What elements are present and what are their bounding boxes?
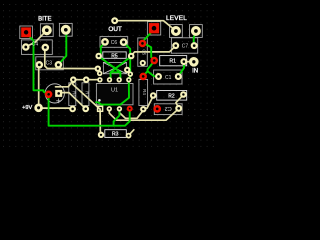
pad R4 bottom <box>142 108 144 110</box>
pad OUT red square (J2) <box>149 23 159 33</box>
diode D1 outline <box>103 63 126 74</box>
wire R1 right to IN pad <box>184 61 194 63</box>
svg-text:R3: R3 <box>112 132 119 138</box>
wire C5 top to R1 left via <box>143 44 154 61</box>
pad R6 bottom <box>71 108 74 111</box>
wire U1 pin5 internal route <box>96 80 129 105</box>
pad C6 right <box>122 41 125 44</box>
pad BITE pot pin 2 <box>64 28 68 32</box>
connector J2 OUT red pad outline box <box>147 22 160 35</box>
wire R3 right stub <box>129 130 134 135</box>
wire R1 left via zigzag to C1 left <box>148 61 159 77</box>
svg-text:BITE: BITE <box>38 16 51 22</box>
pad R3 right <box>128 135 130 137</box>
svg-text:C6: C6 <box>111 40 118 46</box>
svg-text:C2: C2 <box>165 105 172 111</box>
wire +9V pad to R6 bottom <box>39 107 73 110</box>
pad C3 right <box>57 63 60 66</box>
wire R4 bottom to R2 left <box>144 96 154 109</box>
capacitor C8 electrolytic circle outline <box>45 84 64 103</box>
pad LEVEL pot pin A <box>174 29 178 33</box>
wire R6 top to U1 pin1 (long diagonal) <box>73 80 100 108</box>
resistor R4 outline <box>139 80 148 106</box>
capacitor C8 plus mark <box>57 100 61 102</box>
pad U1 pin 1 square <box>98 106 103 111</box>
svg-text:C5: C5 <box>142 49 147 55</box>
svg-text:R7: R7 <box>85 91 90 97</box>
pad R7 bottom <box>84 108 87 111</box>
wire C8 plus upper to R6 top <box>56 80 74 86</box>
pad R4 top (red) <box>142 75 145 78</box>
wire C8 minus down to long bottom run <box>49 94 130 125</box>
resistor R6 outline <box>69 83 76 106</box>
pad R3 left <box>100 134 102 136</box>
wire U1 pin3 staircase to R4 bottom <box>119 109 143 119</box>
wire U1 pin1 to R3 left <box>99 109 102 135</box>
wire C8 plus lower to R7 bottom <box>62 93 86 109</box>
capacitor C2 outline <box>154 104 182 115</box>
pad R5 left <box>97 55 100 58</box>
pad U1 pin 8 <box>99 79 101 81</box>
svg-text:U1: U1 <box>111 88 118 94</box>
pad C6 left <box>104 40 107 43</box>
pot BITE pad 1 outline box <box>40 24 53 37</box>
pad C8 minus (red) <box>47 93 50 96</box>
svg-text:R6: R6 <box>71 91 76 97</box>
svg-text:R4: R4 <box>142 89 147 95</box>
capacitor C5 outline <box>138 38 148 66</box>
pad R6 top <box>72 78 75 81</box>
pad U1 pin 2 <box>108 108 110 110</box>
pad R7 top <box>85 78 88 81</box>
wire link under D1 <box>111 71 121 73</box>
wire R5 right to U1 pin7 (diag) <box>111 56 132 79</box>
wire OUT red pad to C5 top <box>143 32 152 44</box>
pad R1 right <box>183 60 186 63</box>
capacitor C3 outline <box>36 57 64 70</box>
pad C2 left (red) <box>156 108 159 111</box>
svg-text:R5: R5 <box>111 53 118 59</box>
pad R1 left (red) <box>153 59 156 62</box>
pad U1 pin 6 <box>118 79 120 81</box>
pad BITE pot pin 1 <box>45 28 49 32</box>
svg-text:R1: R1 <box>169 58 176 64</box>
pad C8 plus square <box>55 90 62 97</box>
pad C2 right <box>177 107 180 110</box>
pad IN <box>192 60 195 63</box>
wire BITE2 down to C3 right <box>58 31 66 65</box>
pad C7 right <box>193 44 196 47</box>
wire BITE red pad down left edge (ground net) <box>27 34 49 95</box>
capacitor C1 outline <box>154 70 182 84</box>
wire C6 left to R5 left <box>99 43 105 56</box>
pad U1 pin 5 <box>128 79 130 81</box>
pad OUT <box>113 19 116 22</box>
pad U1 pin 3 <box>118 108 120 110</box>
pad C5 bottom <box>142 62 144 64</box>
wire OUT pad to LEVEL A <box>116 21 176 31</box>
wire D1 right short link <box>127 69 130 72</box>
capacitor C4 outline <box>22 40 53 55</box>
svg-text:OUT: OUT <box>108 26 122 33</box>
capacitor C7 outline <box>171 38 197 53</box>
pad LEVEL pot pin B <box>194 29 198 33</box>
pad D1 left <box>97 68 99 70</box>
svg-text:C7: C7 <box>182 44 189 50</box>
resistor R1 outline <box>160 56 187 66</box>
pad C4 left <box>24 46 27 49</box>
op-amp U1 body <box>96 84 133 105</box>
wire R2 right to C2 right <box>176 95 184 108</box>
svg-text:+9V: +9V <box>22 105 32 111</box>
wire branch to R4 top <box>143 71 147 76</box>
resistor R5 outline <box>103 52 126 58</box>
wire LEVEL B down to C7 right <box>194 33 196 46</box>
connector J1 BITE red pad outline box <box>20 26 33 39</box>
pad U1 pin 4 (red) <box>129 108 131 110</box>
pad +9V <box>37 106 40 109</box>
capacitor C6 outline <box>100 37 128 48</box>
pad node above U1 pin 8 <box>99 72 101 74</box>
wire C6 right down pad column to U1 pin5 <box>124 42 131 79</box>
svg-text:C1: C1 <box>165 75 172 81</box>
pad R5 right <box>130 55 133 58</box>
wire R5 left to U1 pin6 (diag) <box>99 56 121 79</box>
svg-text:C4: C4 <box>32 42 39 48</box>
pad C4 right <box>44 46 47 49</box>
pad R2 left <box>152 94 155 97</box>
pot BITE pad 2 outline box <box>59 23 72 36</box>
pad C3 left <box>38 63 41 66</box>
diode D1 cross mark <box>103 63 126 74</box>
wire C3 left to +9V pad <box>38 67 40 105</box>
pad C1 left <box>157 75 160 78</box>
pot LEVEL pad A outline box <box>170 25 183 38</box>
pad C7 left <box>174 44 177 47</box>
wire U1 pin2 staircase to C2 right <box>109 109 178 121</box>
pad C1 right <box>177 75 180 78</box>
svg-text:C3: C3 <box>46 60 53 66</box>
svg-text:R2: R2 <box>168 93 175 99</box>
resistor R3 outline <box>105 130 127 138</box>
resistor R7 outline <box>82 83 89 106</box>
pad D1 right <box>126 69 128 71</box>
wire BITE1 to C4 left <box>25 30 47 47</box>
wire R5 right to C7 left <box>131 46 175 56</box>
pot LEVEL pad B outline box <box>190 25 203 38</box>
pad node above U1 pin 5 <box>129 73 131 75</box>
wire C1 right up to R1 right <box>178 62 184 76</box>
resistor R2 outline <box>157 91 187 101</box>
wire R6 top along U1 top pads <box>73 79 100 81</box>
svg-text:IN: IN <box>192 68 198 74</box>
pad R2 right <box>182 93 185 96</box>
pad U1 pin 7 <box>109 79 111 81</box>
wire bottom run branch to U1 pin3 <box>114 109 120 126</box>
op-amp U1 pin-1 dot <box>98 99 101 102</box>
svg-text:LEVEL: LEVEL <box>166 15 187 22</box>
pad C5 top (red) <box>141 42 144 45</box>
pad BITE red square (pad 1 of J1) <box>21 27 31 37</box>
wire C4 right down to D1 left (net A) <box>45 48 98 69</box>
